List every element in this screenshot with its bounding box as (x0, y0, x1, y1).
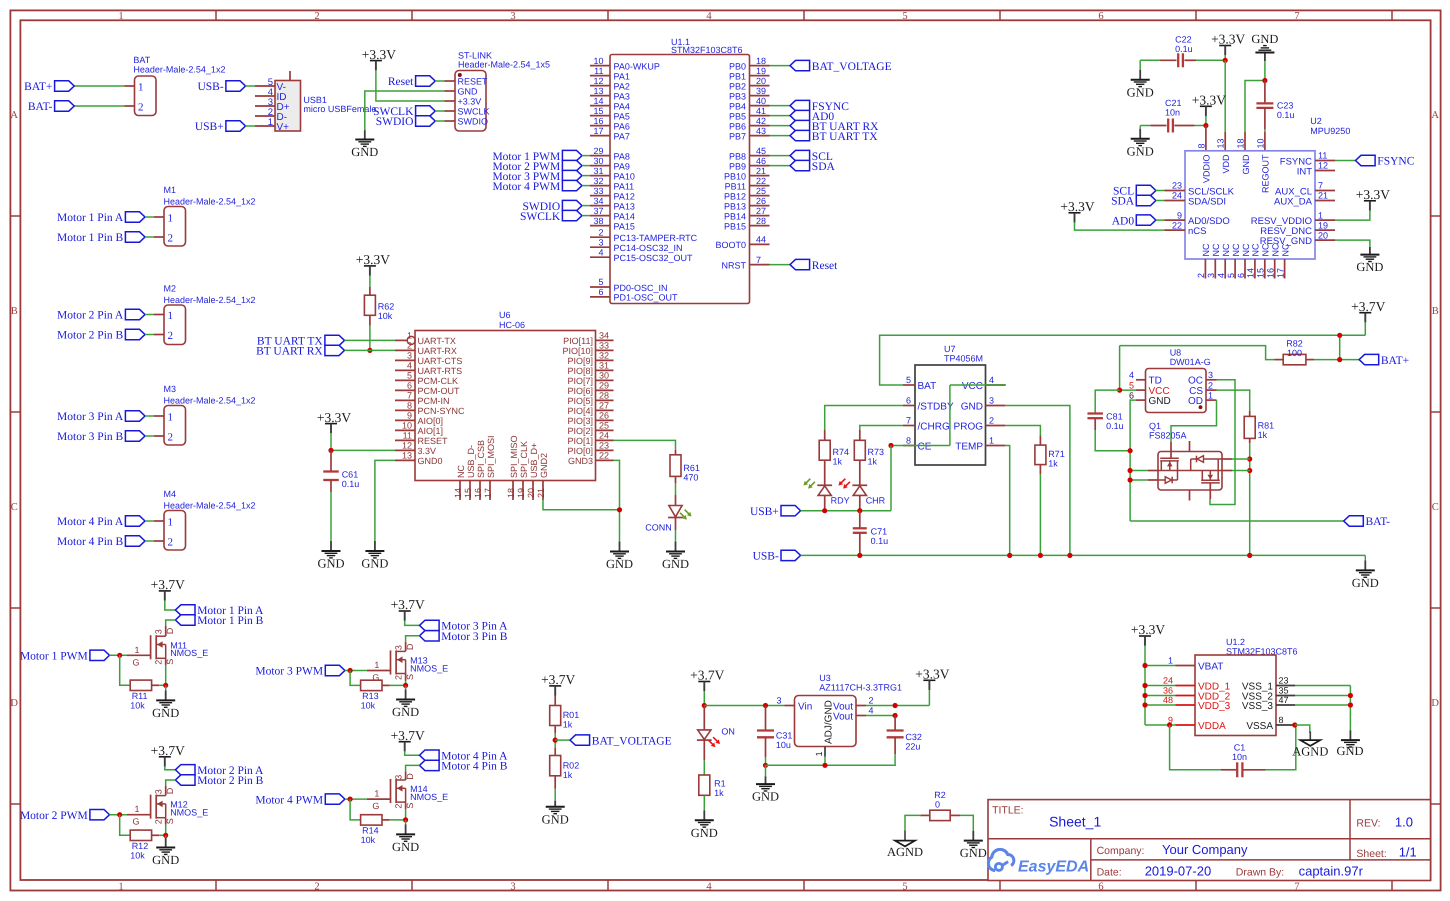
svg-text:Motor 3 Pin B: Motor 3 Pin B (441, 631, 507, 643)
svg-text:35: 35 (1279, 686, 1289, 696)
svg-text:10k: 10k (378, 311, 393, 321)
svg-text:VSS_3: VSS_3 (1242, 701, 1274, 712)
net flag Motor 4 PWM (325, 794, 345, 804)
capacitor C61 (323, 470, 339, 472)
svg-text:GND: GND (606, 557, 633, 571)
wire USB- rail (801, 554, 1366, 556)
net flag SDA (U1.1 right) (790, 160, 810, 170)
wire gate to R11 (120, 655, 131, 685)
junction source/R13 (403, 683, 408, 688)
wire +3.7V to Motor 2 Pin A (165, 766, 176, 770)
net flag Motor 1 Pin A (175, 605, 195, 615)
svg-text:AZ1117CH-3.3TRG1: AZ1117CH-3.3TRG1 (819, 683, 902, 693)
svg-text:1: 1 (1208, 390, 1213, 400)
net flag Motor 1 PWM (U1.1) (562, 150, 582, 160)
wire +3.3V to U1.2 row 695.5 (1145, 695, 1176, 697)
svg-text:Header-Male-2.54_1x2: Header-Male-2.54_1x2 (164, 196, 256, 206)
svg-text:NRST: NRST (722, 260, 747, 270)
IC U6 right pins (596, 339, 614, 341)
svg-text:0: 0 (935, 800, 940, 810)
junction GND2/GND3 (617, 507, 622, 512)
junction source/R12 (163, 833, 168, 838)
svg-text:1k: 1k (868, 457, 878, 467)
wire SWDIO flag to pin (435, 120, 444, 122)
svg-text:TITLE:: TITLE: (992, 805, 1024, 817)
svg-text:PC14-OSC32_IN: PC14-OSC32_IN (614, 243, 683, 253)
junction BAT+ row (1337, 357, 1342, 362)
wire R14 to source (382, 819, 390, 821)
wire Motor 2 PWM to pin (582, 165, 590, 167)
junction Q1 l2 (1128, 477, 1133, 482)
svg-text:PB10: PB10 (724, 171, 746, 181)
wire LED CHR to USB+ rail (859, 495, 861, 510)
svg-text:31: 31 (593, 166, 603, 176)
svg-text:3: 3 (598, 237, 603, 247)
svg-text:1k: 1k (1048, 459, 1058, 469)
svg-text:21: 21 (536, 488, 546, 498)
wire PB pin to SCL (770, 155, 791, 157)
capacitor C23 (1256, 102, 1273, 104)
wire C22 right to +3.3V (1185, 59, 1197, 61)
svg-text:1: 1 (814, 751, 824, 756)
IC U1.2 STM32F103C8T6 body (1195, 655, 1276, 736)
svg-text:CE: CE (918, 441, 932, 452)
svg-text:1: 1 (168, 517, 174, 529)
svg-text:Motor 2 Pin B: Motor 2 Pin B (57, 330, 123, 342)
svg-text:3: 3 (1206, 273, 1216, 278)
wire USB- rail to GND (right) (1364, 554, 1366, 557)
svg-text:VSSA: VSSA (1246, 721, 1273, 732)
svg-text:PA13: PA13 (614, 201, 635, 211)
svg-text:4: 4 (706, 11, 712, 22)
junction C22/+3.3V (1223, 58, 1228, 63)
svg-text:+3.7V: +3.7V (1351, 299, 1385, 314)
svg-text:8: 8 (1279, 715, 1284, 725)
wire /CHRG to R73 (860, 426, 903, 431)
svg-text:PB12: PB12 (724, 191, 746, 201)
svg-text:15: 15 (463, 488, 473, 498)
svg-text:GND: GND (152, 706, 179, 720)
svg-text:GND: GND (961, 401, 983, 412)
svg-text:PA15: PA15 (614, 221, 635, 231)
svg-text:9: 9 (1177, 210, 1182, 220)
svg-text:SPI_CSB: SPI_CSB (476, 440, 486, 478)
svg-text:100: 100 (1287, 348, 1302, 358)
wire C31 to GND rail (765, 737, 767, 757)
svg-text:3: 3 (394, 775, 404, 780)
wire LED ON top lead (703, 706, 705, 730)
svg-text:R2: R2 (934, 790, 946, 800)
svg-text:32: 32 (593, 176, 603, 186)
svg-text:HC-06: HC-06 (499, 320, 525, 330)
wire Motor 1 PWM to pin (582, 155, 590, 157)
wire C71 top lead (859, 511, 861, 529)
svg-text:PA8: PA8 (614, 151, 630, 161)
svg-text:NC: NC (1251, 243, 1261, 256)
svg-text:10k: 10k (361, 700, 376, 710)
wire Motor 4 PWM to pin (582, 185, 590, 187)
svg-text:Motor 2 Pin A: Motor 2 Pin A (57, 310, 124, 322)
IC U2 MPU9250 body (1185, 151, 1315, 259)
ground GND (U1.2 VSS) (1349, 730, 1351, 740)
svg-text:R73: R73 (868, 447, 885, 457)
svg-text:D: D (10, 698, 18, 709)
resistor R01 (550, 706, 561, 726)
svg-text:NC: NC (1280, 243, 1290, 256)
svg-text:Company:: Company: (1097, 845, 1145, 857)
net flag BT UART TX (U1.1 right) (790, 130, 810, 140)
svg-text:+3.3V: +3.3V (915, 667, 949, 682)
svg-text:GND: GND (152, 853, 179, 867)
svg-text:40: 40 (756, 96, 766, 106)
junction rail/BAT+ col (1337, 333, 1342, 338)
svg-text:VBAT: VBAT (1198, 661, 1223, 672)
svg-text:PA5: PA5 (614, 111, 630, 121)
wire U7 VCC stub (950, 384, 1006, 386)
svg-text:PB14: PB14 (724, 211, 746, 221)
wire BAT+ to BAT pin 1 (74, 85, 124, 87)
IC U7 TP4056M body (915, 365, 986, 465)
svg-text:+3.7V: +3.7V (151, 743, 185, 758)
svg-text:0.1u: 0.1u (1175, 44, 1193, 54)
net flag Motor 3 Pin B (125, 431, 145, 441)
net flag Motor 3 Pin A (420, 620, 440, 630)
transistor Q1 FS8205A (1158, 452, 1222, 491)
net flag Motor 3 Pin A (125, 411, 145, 421)
wire to BAT_VOLTAGE flag (555, 739, 570, 741)
LED CHR (852, 484, 867, 486)
ground GND (C22) (1139, 69, 1141, 71)
svg-text:Date:: Date: (1097, 867, 1122, 879)
svg-text:30: 30 (593, 156, 603, 166)
wire Motor 1 Pin A to M1 pin1 (145, 216, 154, 218)
net flag Motor 4 PWM (U1.1) (562, 180, 582, 190)
svg-text:REGOUT: REGOUT (1261, 154, 1271, 193)
svg-text:Your Company: Your Company (1162, 842, 1248, 857)
ground GND (R2) (972, 829, 974, 831)
net flag FSYNC (U2) (1356, 155, 1376, 165)
svg-text:PA10: PA10 (614, 171, 635, 181)
wire PB pin to AD0 (770, 115, 791, 117)
svg-text:GND: GND (1149, 396, 1171, 407)
ground GND (CONN LED) (675, 540, 677, 543)
junction USB-/TEMP (1007, 553, 1012, 558)
svg-text:2: 2 (314, 11, 319, 22)
wire C61 to GND (330, 480, 332, 492)
net flag Motor 1 Pin B (175, 615, 195, 625)
svg-text:0.1u: 0.1u (1277, 110, 1295, 120)
junction USB+/CHR (857, 508, 862, 513)
svg-text:AIO[0]: AIO[0] (418, 416, 444, 426)
ground GND (U6 GND3) (619, 540, 621, 542)
svg-text:AUX_DA: AUX_DA (1274, 196, 1313, 207)
wire ADJ/GND to rail (824, 757, 826, 766)
svg-text:21: 21 (1318, 191, 1328, 201)
resistor R2 (930, 810, 950, 820)
svg-text:+3.7V: +3.7V (391, 597, 425, 612)
svg-text:32: 32 (599, 351, 609, 361)
svg-text:2: 2 (1196, 273, 1206, 278)
IC U2 right pins (1315, 160, 1335, 162)
wire +3.7V to rail (703, 691, 705, 706)
wire R12 to source (152, 834, 160, 836)
wire U8 GND down rail (1130, 400, 1136, 521)
wire PB pin to FSYNC (770, 105, 791, 107)
svg-text:7: 7 (407, 391, 412, 401)
svg-text:M2: M2 (164, 284, 177, 294)
svg-text:DW01A-G: DW01A-G (1170, 357, 1211, 367)
svg-text:16: 16 (593, 116, 603, 126)
svg-text:U8: U8 (1170, 348, 1182, 358)
wire PB pin to BT UART RX (770, 125, 791, 127)
svg-text:SWCLK: SWCLK (458, 107, 490, 117)
svg-text:1: 1 (168, 412, 174, 424)
junction Vout4/C32 (893, 713, 898, 718)
svg-text:TEMP: TEMP (955, 441, 983, 452)
svg-text:RESET: RESET (458, 77, 489, 87)
net flag Motor 3 PWM (U1.1) (562, 170, 582, 180)
svg-text:1k: 1k (563, 720, 573, 730)
svg-text:33: 33 (593, 186, 603, 196)
svg-text:34: 34 (599, 331, 609, 341)
wire U7 PROG to R71 (1005, 426, 1040, 436)
svg-text:1: 1 (134, 645, 139, 655)
svg-text:Sheet_1: Sheet_1 (1049, 814, 1101, 830)
svg-text:10: 10 (593, 56, 603, 66)
IC U3 AZ1117CH body (795, 696, 857, 747)
junction +3.7V rail/LED (702, 703, 707, 708)
wire PB pin to BT UART TX (770, 135, 791, 137)
svg-text:NC: NC (1231, 243, 1241, 256)
svg-text:1: 1 (168, 213, 174, 225)
net flag USB+ (226, 121, 246, 131)
svg-text:AD0: AD0 (1112, 215, 1135, 227)
svg-text:3.3V: 3.3V (418, 446, 437, 456)
junction USB+/RDY (822, 508, 827, 513)
resistor R81 (1244, 416, 1255, 438)
svg-text:2: 2 (168, 432, 174, 444)
svg-text:27: 27 (756, 206, 766, 216)
svg-text:Motor 2 Pin B: Motor 2 Pin B (197, 775, 263, 787)
net flag SWDIO (416, 116, 436, 126)
wire Q1 left pin1 to rail (1130, 470, 1148, 472)
wire C32 top lead (894, 716, 896, 730)
svg-text:19: 19 (1318, 220, 1328, 230)
svg-text:U7: U7 (944, 344, 956, 354)
svg-text:2: 2 (598, 227, 603, 237)
svg-text:PIO[4]: PIO[4] (567, 406, 593, 416)
net flag Motor 2 Pin A (175, 765, 195, 775)
svg-text:Q1: Q1 (1149, 421, 1161, 431)
svg-text:3: 3 (510, 11, 515, 22)
junction GND/C23 (1262, 78, 1267, 83)
wire Reset flag to pin (435, 80, 444, 82)
wire +3.7V to Motor 4 Pin A (405, 751, 420, 755)
wire USB- to USB1 pin 5 (246, 85, 256, 87)
svg-text:INT: INT (1297, 166, 1313, 177)
junction ADJ/GND rail (822, 763, 827, 768)
svg-text:0.1u: 0.1u (342, 479, 360, 489)
svg-text:14: 14 (1246, 268, 1256, 278)
svg-text:nCS: nCS (1188, 226, 1206, 237)
svg-text:Motor 1 Pin B: Motor 1 Pin B (57, 232, 123, 244)
svg-text:2019-07-20: 2019-07-20 (1145, 864, 1212, 879)
svg-text:NC: NC (1211, 243, 1221, 256)
svg-text:12: 12 (402, 441, 412, 451)
svg-text:Header-Male-2.54_1x2: Header-Male-2.54_1x2 (164, 395, 256, 405)
svg-text:PB5: PB5 (729, 111, 746, 121)
svg-text:AIO[1]: AIO[1] (418, 426, 444, 436)
svg-text:NC: NC (1261, 243, 1271, 256)
wire Motor 2 Pin B to M2 pin2 (145, 334, 154, 336)
svg-text:VDDA: VDDA (1198, 721, 1226, 732)
svg-text:Motor 3 Pin B: Motor 3 Pin B (57, 431, 123, 443)
svg-text:2: 2 (168, 233, 174, 245)
svg-text:CHR: CHR (866, 496, 886, 506)
svg-text:10k: 10k (130, 700, 145, 710)
svg-text:10n: 10n (1165, 108, 1180, 118)
net flag BT UART TX (U6) (325, 335, 345, 345)
svg-text:0.1u: 0.1u (1106, 421, 1124, 431)
wire C21 right to +3.3V (1174, 125, 1194, 127)
wire BAT- to BAT pin 2 (74, 105, 124, 107)
IC U7 pins (903, 384, 915, 386)
svg-text:BOOT0: BOOT0 (715, 240, 746, 250)
wire +3.3V to U2 VDD pin13 (1224, 60, 1226, 131)
svg-text:RDY: RDY (831, 496, 850, 506)
IC U2 bottom NC pins (1204, 259, 1206, 279)
svg-text:UART-RX: UART-RX (418, 346, 457, 356)
svg-text:1: 1 (118, 11, 123, 22)
svg-text:M3: M3 (164, 384, 177, 394)
wire C81 to GND rail (1094, 418, 1096, 430)
svg-text:1k: 1k (563, 770, 573, 780)
wire R82 leads (1275, 359, 1284, 361)
svg-text:+3.7V: +3.7V (151, 577, 185, 592)
wire R73 to LED CHR (859, 460, 861, 485)
wire +3.3V to RESV_VDDIO (1335, 210, 1370, 220)
svg-text:12: 12 (1318, 161, 1328, 171)
svg-text:PB9: PB9 (729, 161, 746, 171)
svg-text:PB1: PB1 (729, 71, 746, 81)
svg-text:Reset: Reset (812, 260, 838, 272)
junction gate/R11 (117, 653, 122, 658)
svg-text:PROG: PROG (954, 421, 984, 432)
resistor R14 (361, 815, 382, 825)
net flag Motor 1 PWM (90, 650, 110, 660)
svg-text:28: 28 (756, 216, 766, 226)
svg-text:PA7: PA7 (614, 131, 630, 141)
svg-text:9: 9 (407, 411, 412, 421)
svg-text:3: 3 (989, 396, 994, 406)
svg-text:20: 20 (526, 488, 536, 498)
wire +3.3V to VDDA (1145, 724, 1176, 726)
svg-text:R02: R02 (563, 760, 580, 770)
ground GND (R1) (703, 809, 705, 810)
ground GND (M11) (165, 685, 167, 690)
wire +3.3V to R62 (369, 275, 371, 287)
svg-text:S: S (405, 674, 415, 680)
svg-text:21: 21 (756, 166, 766, 176)
svg-text:BT UART RX: BT UART RX (256, 346, 323, 358)
svg-text:34: 34 (593, 196, 603, 206)
svg-text:1: 1 (374, 789, 379, 799)
svg-text:GND: GND (392, 705, 419, 719)
wire SWCLK to PA14 (582, 215, 590, 217)
svg-text:Reset: Reset (388, 76, 414, 88)
wire U8 CS to R81 (1217, 390, 1250, 411)
svg-text:U1.2: U1.2 (1226, 637, 1245, 647)
svg-text:+3.3V: +3.3V (1060, 199, 1094, 214)
svg-text:2: 2 (989, 416, 994, 426)
wire Motor 1 Pin B to M1 pin2 (145, 236, 154, 238)
IC U2 left pins (1165, 190, 1186, 192)
wire SWDIO to PA13 (582, 205, 590, 207)
wire U7 BAT to +3.7V rail (880, 335, 1366, 385)
svg-text:A: A (10, 110, 18, 121)
svg-text:1k: 1k (1258, 430, 1268, 440)
net flag Motor 3 PWM (325, 665, 345, 675)
wire C31 to GND (765, 765, 767, 776)
junction C31/GND rail (763, 763, 768, 768)
svg-text:Sheet:: Sheet: (1356, 848, 1386, 860)
svg-text:5: 5 (598, 277, 603, 287)
svg-text:GND: GND (1127, 144, 1154, 158)
svg-text:PA4: PA4 (614, 101, 630, 111)
junction C81/GND rail (1128, 448, 1133, 453)
svg-text:470: 470 (683, 473, 698, 483)
title block grid (988, 800, 1431, 881)
svg-text:2: 2 (1208, 380, 1213, 390)
svg-text:2: 2 (138, 102, 144, 114)
IC U1.1 right pins PB/BOOT0/NRST (750, 65, 770, 67)
svg-text:Header-Male-2.54_1x2: Header-Male-2.54_1x2 (133, 65, 225, 75)
svg-text:U2: U2 (1310, 116, 1322, 126)
svg-text:OD: OD (1188, 396, 1203, 407)
wire +3.3V to U1.2 row 665.5 (1145, 665, 1176, 667)
svg-text:C1: C1 (1234, 743, 1246, 753)
svg-text:C: C (11, 502, 18, 513)
wire Motor 4 Pin A to M4 pin1 (145, 520, 154, 522)
resistor R1 (699, 775, 710, 795)
svg-text:3: 3 (1208, 370, 1213, 380)
svg-text:PIO[5]: PIO[5] (567, 396, 593, 406)
svg-text:G: G (372, 801, 379, 811)
wire R13 to source (382, 684, 390, 686)
wire gate to R12 (120, 815, 131, 836)
capacitor C1 (1236, 762, 1238, 777)
net flag BT UART RX (U1.1 right) (790, 120, 810, 130)
wire R02 to GND (554, 776, 556, 789)
svg-text:5: 5 (407, 371, 412, 381)
wire PB pin to BAT_VOLTAGE (770, 65, 791, 67)
svg-text:23: 23 (1279, 676, 1289, 686)
svg-text:BT UART TX: BT UART TX (812, 131, 878, 143)
net flag Motor 3 Pin B (420, 631, 440, 641)
svg-text:R61: R61 (683, 463, 700, 473)
wire R1 to GND (703, 795, 705, 809)
svg-text:GND: GND (752, 790, 779, 804)
svg-text:1: 1 (118, 881, 123, 892)
svg-text:1k: 1k (833, 457, 843, 467)
svg-text:+3.3V: +3.3V (1211, 32, 1245, 47)
svg-text:7: 7 (1294, 11, 1299, 22)
svg-text:6: 6 (1098, 881, 1103, 892)
svg-text:1: 1 (407, 331, 412, 341)
svg-text:45: 45 (756, 146, 766, 156)
wire R61 to LED CONN (675, 476, 677, 483)
junction U8 VCC (1117, 388, 1122, 393)
